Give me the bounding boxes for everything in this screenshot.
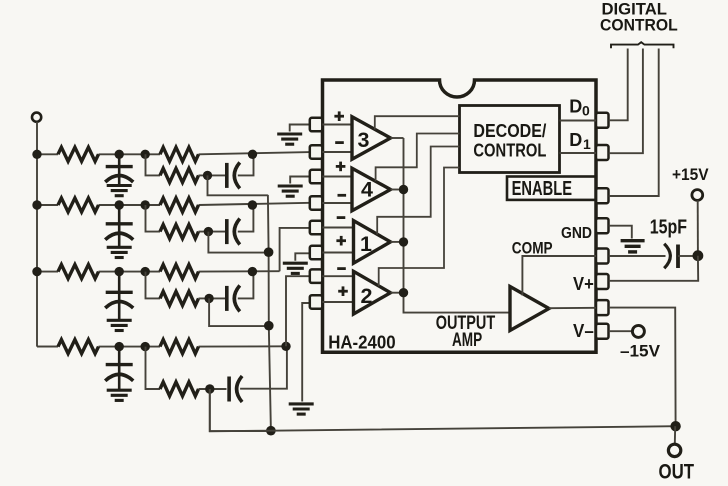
label OUTPUT (436, 313, 496, 334)
node A3 (115, 267, 124, 276)
wire output feedback net (left) (268, 195, 271, 431)
node A4 (115, 342, 124, 351)
wire input bus (37, 122, 58, 347)
resistor R41 (58, 340, 99, 354)
wire pin8 to amp input (322, 301, 354, 303)
wire D4 to output net (210, 389, 271, 431)
label HA-2400 (328, 333, 396, 353)
svg-text:CONTROL: CONTROL (473, 140, 546, 161)
label DIGITAL (602, 1, 668, 19)
resistor R31 (58, 265, 99, 279)
label OUT (659, 461, 695, 484)
svg-text:D: D (569, 130, 582, 150)
wire select U4 (376, 134, 460, 182)
node D2 (204, 227, 213, 236)
capacitor C22 (227, 219, 240, 245)
label minus (pin 2) (335, 141, 344, 144)
svg-text:GND: GND (561, 225, 592, 242)
ground (pin 8) (289, 404, 314, 414)
node +15V/COMP (693, 250, 704, 261)
node bus row2 (32, 200, 41, 209)
wire select U1 (377, 147, 459, 235)
svg-text:AMP: AMP (452, 330, 482, 351)
wire C22 to node C2 (238, 205, 254, 232)
node C2 (248, 200, 257, 209)
svg-text:COMP: COMP (512, 239, 553, 258)
label AMP (452, 330, 482, 351)
label V- (573, 320, 594, 341)
wire OUT node to terminal (674, 426, 676, 444)
node B4 (141, 342, 150, 351)
wire digital control ENABLE (609, 49, 659, 197)
wire U4 output (391, 189, 404, 191)
node output net bottom (266, 426, 276, 436)
capacitor C11 (105, 154, 133, 185)
wire pin5 to amp input (322, 227, 354, 229)
block DECODE/CONTROL (460, 106, 560, 173)
wire pin3 to ground (290, 177, 310, 184)
wire C5 to +15V node (678, 255, 694, 257)
pin +IN4 (left 3) (310, 170, 323, 184)
wire pin2 to amp input (322, 151, 353, 153)
node output net row2 (264, 247, 274, 257)
wire GND pin to ground (609, 226, 632, 239)
label op-amp 1 (360, 232, 372, 256)
label -15V (620, 343, 660, 361)
wire row2 main (37, 203, 310, 205)
wire +15V to node (697, 200, 699, 251)
pin ENABLE (596, 188, 609, 203)
wire pin6 to amp input (322, 252, 354, 254)
svg-text:DECODE/: DECODE/ (473, 120, 546, 141)
ground (C11) (107, 186, 132, 196)
terminal OUT (668, 444, 680, 456)
svg-text:2: 2 (361, 284, 373, 308)
op-amp OUTPUT AMP (510, 287, 549, 331)
wire U3 output (391, 137, 404, 139)
wire pin7 to amp input (322, 275, 354, 277)
wire digital control D0 (609, 49, 628, 121)
node output net row3 (264, 321, 274, 331)
ground (C31) (107, 320, 132, 330)
ground (C41) (107, 390, 132, 400)
wire U1 output (391, 241, 404, 243)
capacitor C41 (105, 347, 133, 391)
wire row1 main (37, 152, 310, 154)
node D1 (203, 171, 212, 180)
node C1 (248, 150, 257, 159)
resistor R42 (160, 340, 199, 354)
node B3 (141, 267, 150, 276)
pin -IN3 (left 2) (310, 145, 323, 159)
wire OUT pin right (609, 308, 676, 427)
capacitor C31 (105, 272, 133, 321)
pin +IN2 (left 8) (310, 295, 323, 309)
node OUT (670, 421, 680, 431)
ground (pin 6) (283, 263, 308, 273)
label plus (pin 1) (334, 111, 344, 121)
resistor R21 (58, 198, 99, 212)
node B1 (141, 150, 150, 159)
pin D1 (596, 145, 609, 160)
svg-text:V–: V– (573, 320, 594, 341)
wire B1 to sub-branch (146, 154, 161, 175)
IC U1 HA-2400 body (323, 80, 597, 352)
wire row4 to pin 7 (286, 276, 310, 346)
label DECODE/ (473, 120, 546, 141)
wire C32 to node C3 (238, 272, 254, 299)
node B2 (141, 200, 150, 209)
wire row4 main (37, 345, 286, 347)
wire pin1 to ground (290, 125, 311, 132)
pin +IN3 (left 1) (310, 118, 323, 132)
svg-text:15pF: 15pF (650, 217, 687, 239)
svg-text:4: 4 (361, 178, 373, 202)
resistor R13 (160, 168, 199, 182)
wire row3 main (37, 270, 280, 272)
svg-text:CONTROL: CONTROL (600, 17, 678, 35)
node output U1 (399, 237, 408, 246)
op-amp U4 (352, 168, 391, 211)
svg-text:OUT: OUT (659, 461, 695, 484)
wire digital control D1 (609, 49, 643, 154)
wire COMP internal (522, 256, 596, 296)
terminal IN (input) (32, 113, 41, 122)
label GND (561, 225, 592, 242)
label op-amp 3 (358, 128, 370, 152)
wire node to V+ pin (609, 256, 699, 281)
label COMP (512, 239, 553, 258)
wire D1 internal (560, 152, 597, 154)
wire pin1 to amp input (322, 124, 353, 126)
block ENABLE (507, 177, 596, 200)
wire pin6 to ground (295, 253, 310, 260)
pin V- (596, 324, 609, 339)
wire D0 internal (560, 120, 597, 122)
svg-text:V+: V+ (573, 273, 594, 294)
label op-amp 2 (361, 284, 373, 308)
node bus row3 (32, 267, 41, 276)
pin COMP (596, 249, 609, 264)
label plus (pin 8) (338, 286, 348, 296)
wire C42 to node C4 (240, 347, 287, 389)
capacitor C32 (227, 285, 240, 311)
wire D3 to output net (209, 298, 269, 326)
node D4 (205, 384, 214, 393)
label minus (pin 4) (338, 194, 347, 197)
wire select U3 (375, 116, 460, 129)
wire COMP to C5 (609, 255, 666, 257)
terminal -15V (632, 325, 644, 337)
label V+ (573, 273, 594, 294)
node output U2 (399, 288, 408, 297)
terminal +15V (692, 190, 703, 201)
pin V+ (596, 274, 609, 289)
wire R43 to C42 (199, 388, 227, 390)
ground (C21) (107, 247, 132, 257)
pin D0 (596, 113, 609, 128)
wire row3 to pin 5 (280, 228, 311, 271)
node A2 (115, 200, 124, 209)
wire select U2 (379, 168, 460, 287)
label op-amp 4 (361, 178, 373, 202)
ground (GND pin) (621, 241, 645, 252)
svg-text:HA-2400: HA-2400 (328, 333, 396, 353)
label minus (pin 5) (337, 216, 346, 219)
resistor R43 (160, 382, 199, 396)
wire D1 to output net (208, 175, 268, 195)
resistor R32 (160, 265, 199, 279)
node D3 (204, 294, 213, 303)
svg-text:ENABLE: ENABLE (512, 178, 572, 200)
capacitor C21 (105, 205, 133, 247)
label D1 (569, 130, 591, 152)
op-amp U1 (354, 221, 391, 264)
pin +IN1 (left 6) (310, 246, 323, 259)
wire B4 to sub-branch (146, 347, 161, 389)
wire R33 to C32 (199, 297, 227, 299)
pin -IN2 (left 7) (310, 269, 323, 283)
node C4 (281, 342, 290, 351)
wire pin3 to amp input (322, 176, 353, 178)
pin -IN1 (left 5) (310, 221, 323, 235)
wire V- pin to terminal (609, 330, 633, 332)
wire pin8 to ground (302, 303, 310, 402)
wire output bus vertical (404, 138, 511, 313)
ground (pin 3) (278, 186, 303, 196)
svg-text:1: 1 (583, 136, 591, 152)
wire C12 to node C1 (238, 154, 254, 175)
wire B2 to sub-branch (146, 205, 161, 232)
op-amp U3 (352, 117, 391, 160)
ground (pin 1) (277, 134, 302, 144)
wire OUTPUT AMP output (549, 307, 596, 309)
svg-text:–15V: –15V (620, 343, 660, 361)
node A1 (115, 150, 124, 159)
pin -IN4 (left 4) (310, 196, 323, 210)
wire U2 output (391, 292, 404, 294)
label +15V (672, 166, 709, 184)
resistor R11 (58, 147, 99, 161)
label D0 (569, 97, 590, 119)
node output U4 (399, 185, 408, 194)
node bus row1 (32, 150, 41, 159)
resistor R33 (160, 291, 199, 305)
label ENABLE (512, 178, 572, 200)
svg-text:+15V: +15V (672, 166, 709, 184)
resistor R22 (160, 198, 199, 212)
pin OUT (596, 300, 609, 315)
label CONTROL (block) (473, 140, 546, 161)
wire R13 to C12 (199, 174, 227, 176)
resistor R23 (160, 225, 199, 239)
label minus (pin 7) (337, 267, 346, 270)
svg-text:1: 1 (360, 232, 372, 256)
capacitor C5 15pF (664, 244, 678, 268)
wire D2 to output net (208, 232, 268, 253)
wire pin4 to amp input (322, 202, 353, 204)
wire B3 to sub-branch (146, 272, 161, 299)
label CONTROL (top) (600, 17, 678, 35)
capacitor C42 (229, 376, 242, 402)
label 15pF (650, 217, 687, 239)
label plus (pin 3) (336, 162, 346, 172)
pin GND (596, 218, 609, 233)
svg-text:0: 0 (582, 103, 590, 119)
node C3 (248, 267, 257, 276)
wire output feedback bottom (210, 389, 676, 431)
wire R23 to C22 (199, 231, 227, 233)
resistor R12 (160, 147, 199, 161)
svg-text:D: D (569, 97, 582, 117)
label plus (pin 6) (336, 236, 346, 246)
svg-text:3: 3 (358, 128, 370, 152)
bracket digital control (611, 42, 674, 48)
capacitor C12 (227, 162, 240, 188)
op-amp U2 (354, 271, 391, 314)
